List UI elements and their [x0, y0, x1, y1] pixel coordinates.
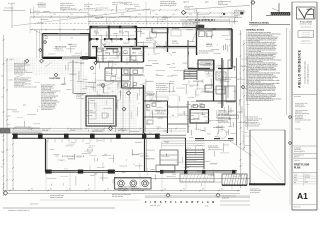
tag diamond f [90, 66, 94, 70]
svg-text:walls work: walls work [206, 74, 212, 76]
courtyard couch [89, 103, 97, 112]
deck hatch box [180, 174, 214, 182]
svg-text:discrepancies: discrepancies [200, 110, 208, 112]
left lower dim ticks [3, 139, 5, 141]
svg-text:3'-6: 3'-6 [9, 149, 11, 151]
curb lines [0, 127, 40, 129]
wall corner right of courtyard [74, 93, 86, 95]
svg-text:PLAN: PLAN [294, 167, 301, 170]
hall door arcs [101, 44, 104, 47]
svg-text:oc schedule: oc schedule [97, 84, 104, 86]
svg-text:dimensions any: dimensions any [85, 86, 94, 88]
deck edge line [115, 178, 250, 180]
deck diag lines [252, 136, 283, 180]
top-left dim horizontal [3, 10, 25, 12]
kitchen counter top [197, 63, 214, 65]
kitchen fridge [216, 86, 225, 94]
bedroom top window [58, 33, 80, 35]
leader a [45, 62, 52, 67]
svg-text:6'-2: 6'-2 [92, 19, 94, 21]
sheet bottom rule [293, 204, 317, 206]
strip box block [298, 31, 314, 37]
dining table [149, 31, 156, 38]
svg-text:2x6: 2x6 [212, 35, 214, 37]
clutter kitchen zone [205, 62, 211, 64]
great room rug [150, 95, 178, 117]
svg-text:KITCHEN: KITCHEN [197, 106, 204, 108]
svg-text:chapel hill nc 27514: chapel hill nc 27514 [300, 27, 311, 29]
deck boards [162, 140, 205, 142]
dim drop x30 [29, 17, 31, 33]
mud room appliances [199, 31, 205, 37]
window gap marks top [98, 25, 108, 27]
wall vertical x109 [108, 26, 110, 40]
svg-text:dimensions: dimensions [222, 35, 229, 37]
top wall dark blob [82, 56, 88, 59]
paver grid left patio [3, 58, 5, 71]
svg-text:COURTYARD: COURTYARD [49, 77, 61, 80]
svg-text:9'-0: 9'-0 [1, 167, 3, 169]
svg-text:12'-4: 12'-4 [206, 14, 209, 16]
svg-text:12'-4: 12'-4 [70, 14, 73, 16]
strip diamond b [288, 141, 291, 144]
threshold detail step [266, 14, 271, 16]
svg-text:9'-6: 9'-6 [241, 69, 243, 71]
svg-text:9'-2: 9'-2 [107, 188, 109, 190]
left wing thick wall 2 [62, 57, 80, 59]
hall south wall [92, 46, 98, 48]
svg-text:F I R S T F L O O R P L A: F I R S T F L O O R P L A N [145, 200, 215, 204]
hall lower lines [168, 106, 189, 108]
top dim ticks 2 [89, 21, 91, 23]
svg-text:any blocking: any blocking [124, 2, 132, 4]
right room wall y68 [188, 68, 210, 70]
breakfast table [218, 130, 227, 139]
spa circle 2 inner [132, 182, 135, 185]
porch left wall [45, 139, 47, 172]
door arc bath [126, 39, 129, 42]
svg-text:11'-8: 11'-8 [9, 171, 12, 173]
dim line above band [12, 128, 186, 130]
great room wall x141 [143, 85, 145, 133]
svg-text:discrepancies walls: discrepancies walls [188, 119, 200, 121]
svg-text:V I L L A G E: V I L L A G E [300, 20, 312, 23]
top dim line left wing [30, 29, 90, 31]
svg-text:9'-2: 9'-2 [221, 188, 223, 190]
top dim line second [88, 21, 238, 23]
svg-text:9-0 x 5-6: 9-0 x 5-6 [94, 33, 99, 35]
svg-text:local dimensions any blocking: local dimensions any blocking [156, 83, 174, 85]
svg-text:f 919 960 1001: f 919 960 1001 [302, 34, 311, 36]
stair room east wall [185, 138, 187, 172]
kitchen wall x213 [213, 60, 215, 101]
tag diamond c [101, 83, 105, 87]
svg-text:oc schedule codes on: oc schedule codes on [245, 120, 259, 122]
svg-text:2x6: 2x6 [71, 38, 73, 40]
svg-text:are walls: are walls [82, 88, 87, 90]
right lower wall y138 [195, 138, 204, 140]
bottom right deck top [250, 129, 285, 131]
top right dark dot [223, 13, 225, 15]
great room sofa [152, 97, 168, 101]
wall vertical x196 [196, 28, 198, 56]
left wing window sill [62, 56, 84, 58]
top dim line main [30, 16, 238, 18]
wall vertical x167 [167, 28, 169, 53]
left lower dim ticks2 [12, 143, 14, 145]
svg-text:scale: 1/4" = 1'-0": scale: 1/4" = 1'-0" [150, 205, 161, 207]
left dim tick marks [6, 59, 8, 61]
svg-text:21-0 x 22-0: 21-0 x 22-0 [206, 46, 213, 48]
svg-text:all and: all and [166, 105, 170, 107]
svg-text:local dimensions any: local dimensions any [218, 1, 231, 3]
left dark blob [0, 129, 10, 134]
svg-text:oc schedule: oc schedule [37, 23, 44, 25]
core fixture 1 [124, 70, 128, 73]
paver grid courtyard area [83, 82, 85, 130]
svg-text:3" = 1'-0": 3" = 1'-0" [252, 26, 259, 28]
kitchen text box [218, 115, 239, 118]
svg-text:2x4 2x6: 2x4 2x6 [195, 129, 200, 131]
core lower wall x130 [129, 68, 131, 80]
porch screen marks [50, 171, 76, 173]
svg-text:9'-6: 9'-6 [241, 45, 243, 47]
clutter top rooms band [135, 30, 142, 32]
svg-text:villagearch.com: villagearch.com [301, 35, 310, 37]
spa circle 1 inner [119, 182, 122, 185]
svg-text:23-0 x 12-0: 23-0 x 12-0 [68, 159, 75, 161]
threshold left vline [251, 0, 253, 21]
svg-text:7'-2: 7'-2 [241, 179, 243, 181]
bottom right rules [220, 200, 250, 202]
svg-text:16'-0: 16'-0 [1, 76, 4, 78]
window tag diamond top right [251, 1, 255, 5]
svg-text:codes on: codes on [112, 4, 118, 6]
svg-text:12'-6: 12'-6 [1, 97, 4, 99]
right dim col x95 [95, 60, 97, 92]
svg-text:2x6 shall: 2x6 shall [224, 144, 230, 146]
bottom right deck outline [249, 130, 251, 185]
threshold detail hatch [271, 12, 273, 15]
bedroom dim diamond [43, 40, 46, 43]
clutter bottom band [209, 174, 213, 176]
stair room west wall [144, 133, 146, 172]
svg-text:7'-2: 7'-2 [241, 131, 243, 133]
core window marks [106, 48, 118, 50]
garage stoop rect [198, 60, 214, 70]
svg-text:9'-2: 9'-2 [31, 188, 33, 190]
svg-text:18-0 x 16-0: 18-0 x 16-0 [157, 113, 164, 115]
dim ticks above band [13, 128, 15, 130]
core wall x121 [121, 47, 123, 63]
svg-text:11-0 x 10-6: 11-0 x 10-6 [172, 43, 179, 45]
clutter right strip zone [249, 63, 251, 65]
roof hip diagonal left [34, 30, 48, 37]
svg-text:verify: verify [172, 63, 175, 65]
core lower h y68 [105, 67, 144, 69]
steps structure [160, 150, 178, 165]
top arrow line [180, 19, 230, 21]
core wall x143 [143, 47, 145, 63]
right thin wall x236 [236, 58, 238, 145]
svg-text:6'-2: 6'-2 [116, 19, 118, 21]
wall top exterior far right inner [196, 30, 232, 32]
core fixtures top [98, 49, 102, 52]
title strip dim line [289, 30, 291, 205]
top dark box [196, 25, 204, 28]
core wall x103 [102, 48, 104, 62]
dim drop x196 [196, 10, 198, 27]
logo V stroke [299, 8, 312, 18]
left dim line outer [3, 35, 5, 196]
stair hatch upper [184, 69, 197, 71]
bedroom right wall [88, 34, 90, 58]
right dim line c [247, 56, 249, 130]
svg-text:and: and [106, 42, 108, 44]
svg-text:7'-2: 7'-2 [1, 152, 3, 154]
stair rails upper [183, 70, 185, 80]
clutter courtyard edges [87, 109, 93, 111]
wall top exterior right [137, 27, 196, 29]
leader diagonal kitchen [230, 141, 252, 156]
paver grid upper courtyard [33, 58, 35, 76]
door arc wic [102, 39, 105, 42]
study furniture [171, 30, 181, 36]
porch bottom wall b [46, 172, 116, 174]
title strip top border [292, 1, 317, 3]
dim drop x146 [145, 2, 147, 27]
core fixture 4 [133, 82, 137, 86]
svg-text:FIRST FLOOR: FIRST FLOOR [294, 164, 310, 166]
wall top exterior mid [90, 25, 137, 27]
dim drop x60 [59, 17, 61, 41]
svg-text:7'-2: 7'-2 [241, 163, 243, 165]
great room wall x143 inner [144, 86, 146, 132]
bottom diamond right [216, 193, 220, 197]
courtyard fountain [102, 113, 107, 118]
deck hatch lines [182, 174, 185, 182]
core wall x130 [129, 48, 131, 62]
strip diamond a [288, 115, 291, 118]
room bottom wall wic [91, 38, 99, 40]
svg-text:conform: conform [8, 79, 13, 81]
bottom dim line 2 [8, 193, 240, 195]
svg-text:12'-4: 12'-4 [172, 14, 175, 16]
title rule line [145, 196, 250, 198]
left dim diamond [39, 48, 42, 51]
roof ridge diagonal [185, 5, 250, 9]
right dim ticks [240, 33, 242, 35]
svg-text:per local: per local [70, 130, 76, 132]
core vertical x105 [104, 68, 106, 81]
bottom wall right run [160, 170, 237, 172]
powder fixtures [146, 104, 150, 108]
top mid dashed roof line [34, 23, 200, 25]
core lower wall x121 [121, 68, 123, 88]
svg-text:A1: A1 [297, 191, 308, 201]
leader diag mid [150, 37, 172, 56]
wall vertical right exterior [231, 29, 233, 69]
clutter great room wing [167, 63, 171, 65]
core stair arrow [132, 76, 134, 87]
svg-text:STUDY: STUDY [172, 41, 177, 43]
hatch band left curb [1, 128, 3, 133]
strip rule 1 [293, 94, 317, 96]
svg-text:6'-2: 6'-2 [140, 19, 142, 21]
bottom dim ticks [9, 190, 11, 192]
svg-text:12-0 x 11-6: 12-0 x 11-6 [146, 40, 153, 42]
svg-text:walls work: walls work [42, 130, 48, 132]
svg-text:blocking 2x4: blocking 2x4 [38, 5, 46, 7]
spa box [115, 178, 152, 190]
long roof diagonal left [12, 9, 150, 26]
bottom right deck dark band [249, 183, 285, 185]
svg-text:walls work: walls work [169, 67, 175, 69]
bottom edge rule [3, 207, 115, 209]
porch screen ticks [47, 139, 49, 142]
svg-text:dimensions any: dimensions any [167, 176, 176, 178]
svg-text:local dimensions: local dimensions [238, 122, 248, 124]
dim drop x167 [167, 17, 169, 27]
porch bottom wall a [46, 170, 116, 172]
top right dim y13 [184, 12, 238, 14]
clutter hall zone [90, 87, 94, 89]
bottom diamond mid [166, 193, 170, 197]
courtyard square inner [88, 98, 113, 123]
svg-text:verify of provide: verify of provide [218, 4, 228, 6]
svg-text:oc schedule: oc schedule [187, 97, 194, 99]
svg-text:12'-4: 12'-4 [189, 14, 192, 16]
svg-text:9'-6: 9'-6 [241, 141, 243, 143]
spa circle 1 outer [118, 180, 125, 187]
threshold detail bar [271, 12, 290, 15]
porch bottom dark post a [46, 170, 52, 174]
svg-text:conform shall: conform shall [196, 88, 204, 90]
hall south wall lower line [92, 47, 196, 49]
svg-text:dimensions any blocking: dimensions any blocking [160, 3, 177, 5]
sheet bottom border [292, 209, 317, 211]
svg-text:9'-2: 9'-2 [88, 188, 90, 190]
right stoop hatch [222, 174, 247, 185]
svg-text:9'-2: 9'-2 [183, 188, 185, 190]
svg-text:blocking: blocking [186, 147, 191, 149]
top dim ticks left wing [31, 29, 33, 31]
svg-text:7'-2: 7'-2 [241, 147, 243, 149]
porch thick wall band [12, 133, 160, 135]
leader b [106, 82, 114, 86]
kitchen counters right [227, 60, 229, 98]
pantry lines [205, 84, 214, 86]
svg-text:7'-2: 7'-2 [241, 115, 243, 117]
dim drop x109 [108, 17, 110, 26]
right dim line b [243, 40, 245, 150]
core fixture 2 [133, 70, 138, 73]
right dim ticks lower [240, 111, 242, 113]
porch ceiling fan [87, 147, 92, 152]
bottom dim line 3 [145, 195, 250, 197]
svg-text:12'-4: 12'-4 [53, 14, 56, 16]
grid patch right of text [72, 76, 74, 92]
clutter porch zone [64, 168, 68, 170]
dim drop x88 [88, 2, 90, 26]
wall top exterior right inner [137, 28, 196, 30]
core lower h y88 [122, 87, 144, 89]
dim line above band 2 [12, 130, 186, 132]
logo A stroke [307, 9, 314, 18]
svg-text:9'-2: 9'-2 [50, 188, 52, 190]
porch bottom dark post b [108, 170, 115, 174]
left lower dim vline [12, 139, 14, 190]
svg-text:SCREENED PORCH: SCREENED PORCH [62, 156, 85, 158]
left dim line inner [6, 58, 8, 190]
courtyard square outer [86, 96, 116, 126]
clutter top annotations [150, 11, 152, 14]
svg-text:PWDR: PWDR [146, 110, 150, 112]
svg-text:12'-4: 12'-4 [36, 14, 39, 16]
kitchen island inner [190, 112, 209, 114]
tag diamond a [40, 59, 44, 63]
stairs bottom [186, 149, 204, 151]
bedroom top wall [43, 33, 91, 35]
wall vertical right exterior inner [230, 30, 232, 68]
right lower wall y140 [195, 140, 234, 142]
kitchen east wall x222 [221, 58, 223, 108]
bottom dim drops [45, 173, 47, 191]
powder room [167, 101, 169, 133]
threshold detail vertical [278, 3, 280, 13]
top dim ticks [33, 16, 35, 18]
top right dark blob [241, 12, 244, 14]
closet rod lines [92, 35, 108, 37]
window seat [226, 86, 235, 102]
stairs rails bottom [185, 149, 187, 169]
top-left dim vertical line [11, 3, 13, 28]
svg-text:codes on: codes on [149, 100, 155, 102]
bottom dim line 1 [3, 190, 240, 192]
window tag diamond top [181, 10, 185, 14]
svg-text:walls work: walls work [225, 39, 231, 41]
core shelf line [97, 55, 144, 57]
left dim verticals [36, 30, 38, 58]
svg-text:W.I.C.: W.I.C. [119, 31, 124, 33]
clutter central core [118, 82, 123, 84]
garage door marks [200, 28, 212, 30]
right room wall x188 [187, 40, 189, 69]
porch left wall inner [46, 140, 48, 171]
svg-text:dimensions any blocking: dimensions any blocking [60, 9, 77, 11]
tag diamond e [108, 126, 112, 130]
svg-text:9'-6: 9'-6 [241, 165, 243, 167]
svg-text:verify of: verify of [61, 84, 66, 86]
dim diamond right mid [241, 85, 244, 88]
svg-text:any blocking: any blocking [106, 73, 113, 75]
clutter left column [35, 81, 40, 83]
svg-text:verify of: verify of [9, 59, 14, 61]
dim drop x41 [41, 17, 43, 32]
kitchen sink [193, 105, 198, 108]
breakfast walls [187, 101, 189, 133]
clutter left wing [79, 54, 81, 57]
bottom diamond left [3, 191, 7, 195]
tag diamond d [126, 91, 130, 95]
svg-text:9'-6: 9'-6 [241, 117, 243, 119]
tag diamond a2 [25, 59, 29, 63]
porch bottom dark post mid [78, 170, 83, 174]
great room fireplace [152, 28, 168, 33]
svg-text:codes: codes [152, 11, 156, 13]
logo box [297, 7, 316, 19]
svg-text:9'-2: 9'-2 [69, 188, 71, 190]
